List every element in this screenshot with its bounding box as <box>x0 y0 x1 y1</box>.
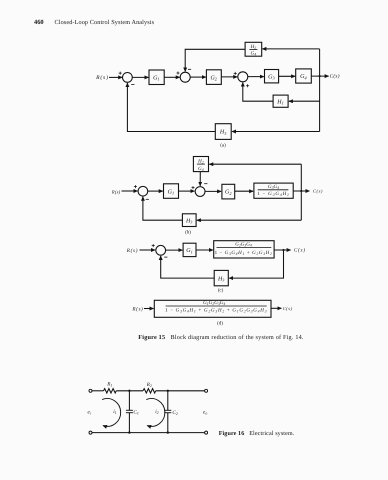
summing junction S1c <box>152 244 168 257</box>
current loop i2 <box>146 399 165 427</box>
wire G1 to summing junction S2a <box>164 76 180 78</box>
resistor R2 <box>143 382 156 393</box>
svg-text:R(s): R(s) <box>95 75 109 81</box>
wire takeoff to H3 (a) <box>232 131 320 133</box>
summing junction S2a <box>177 69 192 82</box>
wire S2b to G2 <box>205 190 221 192</box>
caption Figure 15 <box>138 334 304 341</box>
block G4 (a) <box>296 69 312 83</box>
wire G3 to G4 <box>279 75 296 77</box>
svg-text:C(s): C(s) <box>283 306 293 311</box>
wire takeoff vertical (b) <box>300 164 302 220</box>
node junction dot bottom of C2 <box>167 431 169 433</box>
svg-text:H3: H3 <box>217 276 225 282</box>
svg-text:(b): (b) <box>185 229 191 235</box>
node e_i input label <box>88 409 91 415</box>
running head: Closed-Loop Control System Analysis <box>55 19 155 26</box>
svg-text:Figure 16 Electrical system.: Figure 16 Electrical system. <box>219 430 295 437</box>
svg-text:R(s): R(s) <box>126 248 138 254</box>
wire H1 output to S3a <box>243 83 273 102</box>
terminal top-right <box>205 389 208 392</box>
svg-text:G3: G3 <box>268 74 275 80</box>
svg-text:G1: G1 <box>186 248 193 254</box>
svg-text:G2: G2 <box>225 190 232 196</box>
wire top rail left segment <box>92 390 104 392</box>
current loop i1 <box>102 399 121 427</box>
svg-text:H1: H1 <box>276 99 284 105</box>
label (d) <box>217 321 223 327</box>
node junction dot bottom of C1 <box>128 431 130 433</box>
wire S1b to G1 <box>148 190 163 192</box>
wire R(s) to block (d) <box>144 308 154 310</box>
svg-text:G1G2G3G4: G1G2G3G4 <box>203 300 225 306</box>
block H3 (c) <box>214 270 228 285</box>
terminal top-left <box>89 389 92 392</box>
svg-text:G1: G1 <box>168 189 175 195</box>
wire R(s) to S1c <box>140 249 156 251</box>
node R(s) input (d) <box>131 307 143 313</box>
svg-text:C(s): C(s) <box>330 74 340 80</box>
wire takeoff to H3 (b) <box>197 219 301 221</box>
wire S1a to G1 <box>132 76 148 78</box>
svg-text:R(s): R(s) <box>111 189 121 195</box>
summing junction S1b <box>134 185 149 199</box>
wire top rail R1 to node A <box>116 390 143 392</box>
wire block to C(s) (b) <box>293 190 309 192</box>
wire H2/G4 output to S2b <box>199 172 201 186</box>
block G1 (a) <box>149 70 164 85</box>
page number 460 <box>34 19 44 26</box>
svg-text:G4: G4 <box>300 74 307 80</box>
block G3 (a) <box>265 70 279 83</box>
summing junction S1a <box>119 72 135 85</box>
label (c) <box>218 288 224 294</box>
block H3 (b) <box>182 214 196 227</box>
block G2 (b) <box>222 184 235 199</box>
wire R(s) to summing junction S1a <box>109 76 122 78</box>
node C(s) output (b) <box>313 188 323 193</box>
resistor R1 <box>104 381 117 393</box>
terminal bottom-left <box>89 431 92 434</box>
node R(s) input (c) <box>126 248 138 254</box>
svg-text:(d): (d) <box>217 321 223 327</box>
node R(s) input (b) <box>111 189 121 195</box>
wire takeoff to H2/G4 (b) <box>209 163 301 165</box>
wire top rail R2 to terminal top-right <box>156 390 205 392</box>
svg-text:H3: H3 <box>219 130 227 136</box>
terminal bottom-right <box>205 431 208 434</box>
label (b) <box>185 229 191 235</box>
svg-text:(a): (a) <box>220 143 226 149</box>
node C(s) output (c) <box>294 248 306 254</box>
svg-text:(c): (c) <box>218 288 224 294</box>
svg-text:C(s): C(s) <box>313 188 323 193</box>
summing junction S2b <box>192 184 208 197</box>
svg-text:460: 460 <box>34 19 44 26</box>
svg-text:Figure 15 Block diagram redu: Figure 15 Block diagram reduction of the… <box>138 334 304 341</box>
svg-text:G2G3G4: G2G3G4 <box>235 242 252 248</box>
summing junction S3a <box>234 72 249 87</box>
svg-text:G2: G2 <box>210 75 217 81</box>
svg-text:Closed-Loop Control System Ana: Closed-Loop Control System Analysis <box>55 19 155 26</box>
capacitor C2 <box>164 391 178 433</box>
block H2/G4 (b) <box>193 157 208 173</box>
wire S1c to G1 <box>166 249 183 251</box>
label (a) <box>220 143 226 149</box>
wire block to C(s) (c) <box>274 249 291 251</box>
wire bottom rail <box>92 432 205 434</box>
block G1 (b) <box>164 184 179 199</box>
wire G4 to C(s) output <box>311 75 328 77</box>
wire takeoff vertical (a) <box>319 49 321 132</box>
svg-text:C(s): C(s) <box>294 248 306 254</box>
svg-text:G1: G1 <box>153 76 160 82</box>
node A junction dot top of C1 <box>128 390 130 392</box>
node takeoff point (b) <box>300 190 302 192</box>
node B junction dot top of C2 <box>167 390 169 392</box>
node C(s) output (d) <box>283 306 293 311</box>
block G1 (c) <box>183 243 196 256</box>
capacitor C1 <box>126 391 139 433</box>
wire H3 output to S1a <box>127 83 215 131</box>
block H1 (a) <box>273 95 288 107</box>
node R(s) input (a) <box>95 75 109 81</box>
wire takeoff to H1 (a) <box>289 100 320 102</box>
block H3 (a) <box>215 124 231 140</box>
wire G2 to summing junction S3a <box>221 76 237 78</box>
wire G2 to block G3G4/(1-G3G4H1) <box>235 190 253 192</box>
wire block to C(s) (d) <box>271 307 281 309</box>
block G2 (a) <box>206 70 221 85</box>
wire takeoff to H2/G4 block (a) <box>262 48 319 50</box>
svg-text:H3: H3 <box>185 218 193 224</box>
block G3G4/(1-G3G4H1) (b) <box>254 183 293 198</box>
wire G1 to S2b <box>179 190 195 192</box>
wire H3 output to S1c <box>161 256 215 278</box>
wire H3 output to S1b <box>143 197 183 220</box>
block G1G2G3G4/(1-G3G4H1+G2G3H2+G1G2G3G4H3) (d) <box>154 300 271 317</box>
wire takeoff down to H3 (c) <box>229 250 283 278</box>
node takeoff point (c) <box>282 249 284 251</box>
wire R(s) to S1b <box>122 190 138 192</box>
node e_o output label <box>203 409 207 415</box>
wire H2/G4 output to S2a <box>185 49 245 71</box>
caption Figure 16 <box>219 430 295 437</box>
wire S2a to G2 <box>190 76 206 78</box>
node takeoff point (a) <box>319 75 321 77</box>
wire G1 to big block (c) <box>196 249 213 251</box>
wire S3a to G3 <box>248 76 264 78</box>
svg-text:R(s): R(s) <box>131 307 143 313</box>
block G2G3G4/(1-G3G4H1+G2G3H2) (c) <box>214 241 274 258</box>
node C(s) output (a) <box>330 74 340 80</box>
block H2/G4 (a) <box>245 42 262 56</box>
